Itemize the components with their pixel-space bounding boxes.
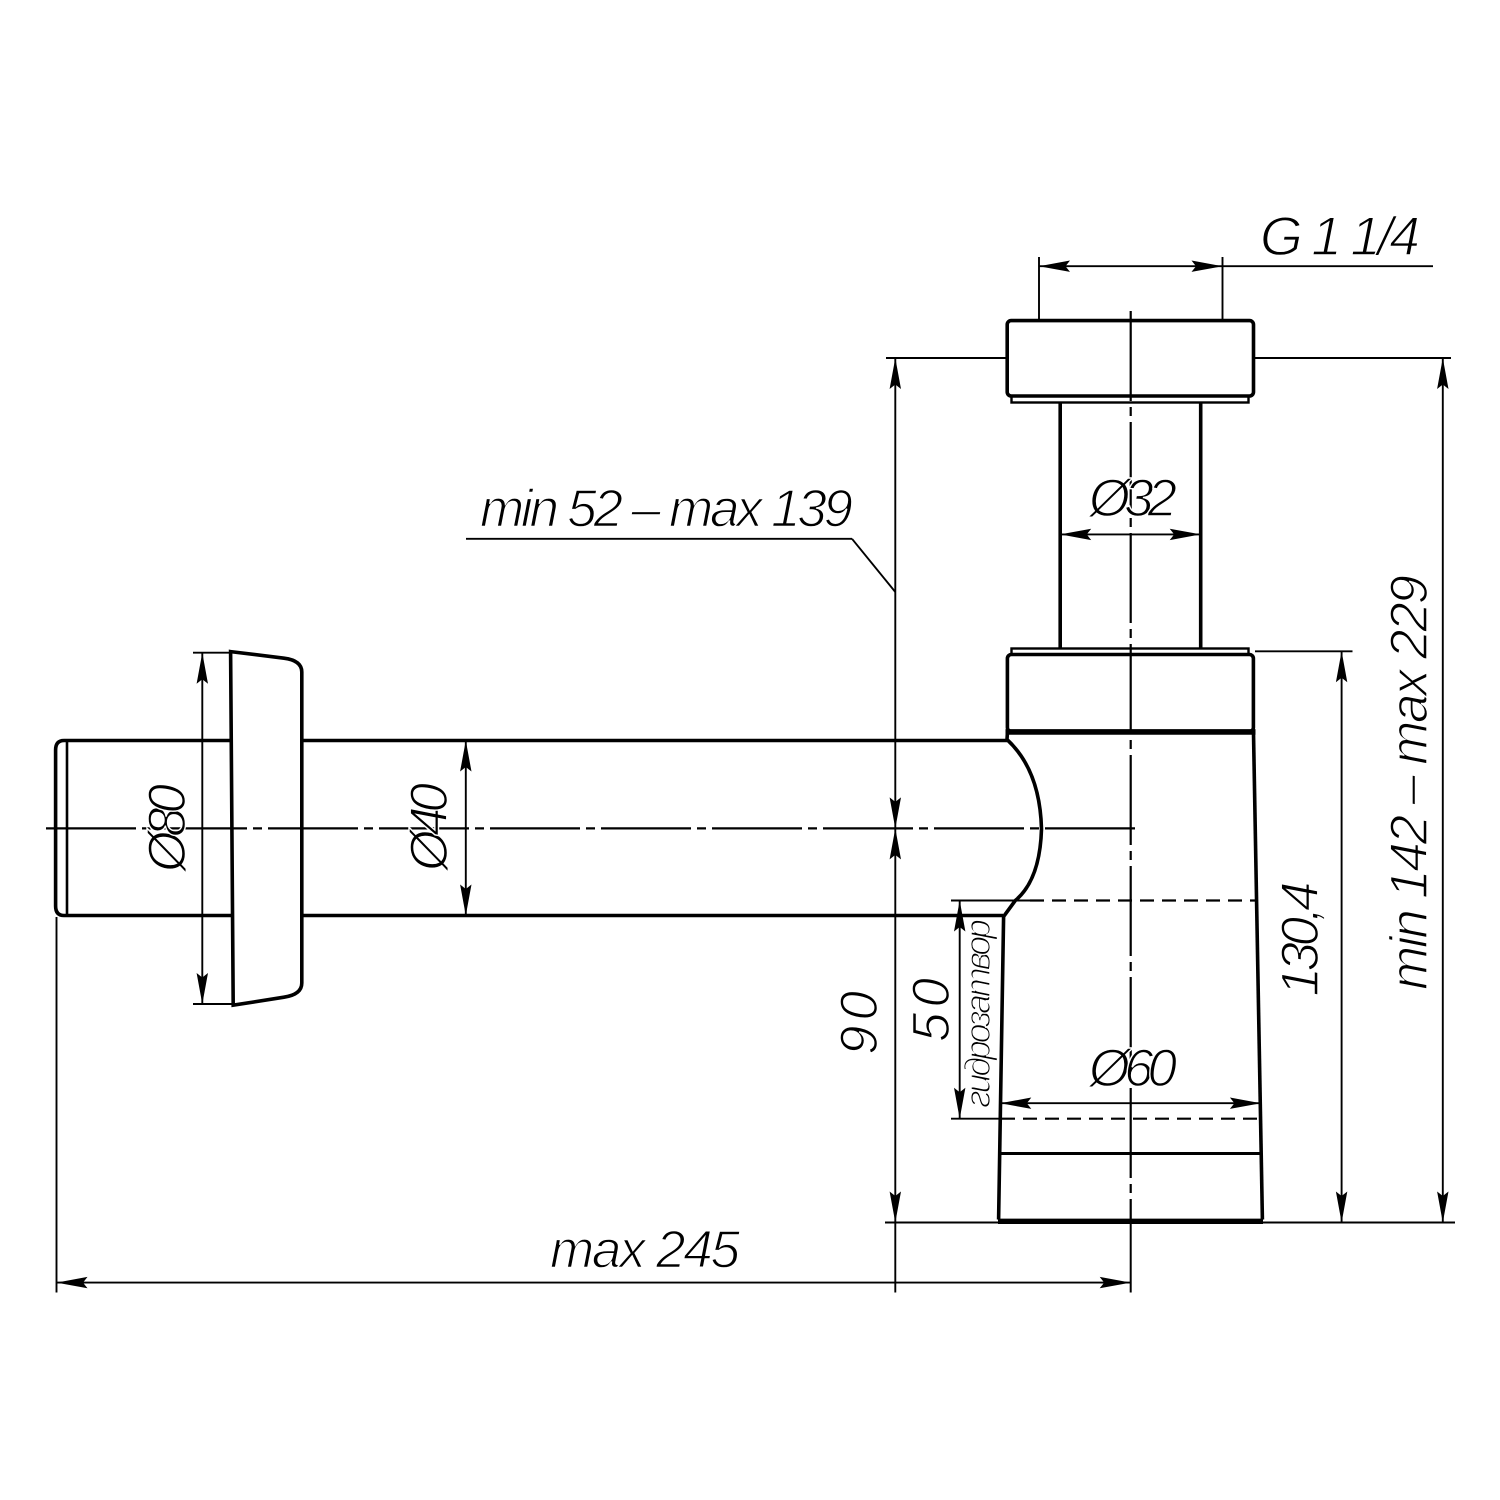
trap body cup outline xyxy=(998,733,1263,1221)
vertical tailpipe phi32 xyxy=(1060,403,1201,650)
hidden water-seal level lines xyxy=(1001,901,1259,1119)
pipe axis centerline horizontal xyxy=(46,827,1140,829)
wall flange phi80 xyxy=(231,652,302,1006)
lower cup nut xyxy=(1006,649,1256,732)
top union nut G 1 1/4 xyxy=(1007,321,1253,403)
dimension G 1 1/4 thread xyxy=(1039,257,1433,320)
svg-text:G 1 1/4: G 1 1/4 xyxy=(1260,205,1420,267)
svg-text:max 245: max 245 xyxy=(550,1221,741,1280)
svg-text:Ø60: Ø60 xyxy=(1087,1039,1178,1098)
dimension min52-max139 with leader and shared line of dimension 90 xyxy=(466,358,1008,1293)
horizontal inlet pipe phi40 xyxy=(56,741,1007,916)
dimension phi60 xyxy=(1000,1102,1261,1104)
dimension max245 xyxy=(57,917,1131,1293)
dimension min142-max229 xyxy=(885,358,1455,1223)
svg-text:Ø40: Ø40 xyxy=(400,782,459,873)
dimension 130,4 xyxy=(1255,651,1353,1222)
svg-text:min 142 – max 229: min 142 – max 229 xyxy=(1380,575,1439,990)
svg-text:130,4: 130,4 xyxy=(1271,882,1330,997)
dimension phi80 xyxy=(193,653,234,1004)
dimension phi32 xyxy=(1060,533,1201,535)
body axis centerline vertical xyxy=(1130,311,1132,1293)
svg-text:min 52 – max 139: min 52 – max 139 xyxy=(480,480,853,539)
svg-text:Ø32: Ø32 xyxy=(1087,469,1177,528)
svg-text:гидрозатвор: гидрозатвор xyxy=(957,919,998,1108)
svg-text:Ø80: Ø80 xyxy=(138,783,197,874)
dimension 50 water seal xyxy=(951,901,1030,1119)
dimension phi40 xyxy=(465,741,467,916)
